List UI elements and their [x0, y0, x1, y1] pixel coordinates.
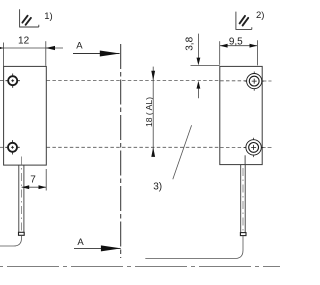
right view screw bottom — [244, 138, 263, 157]
left view screw top — [6, 74, 20, 88]
left probe centerline — [20, 157, 22, 233]
right view probe slot edge — [244, 155, 246, 164]
dimension 7 arrows — [22, 185, 30, 189]
svg-text:7: 7 — [30, 174, 36, 185]
surface icon 2) — [236, 12, 252, 30]
centerline bottom hole — [0, 146, 272, 148]
dimension 18 line — [152, 67, 154, 151]
leader line 3) — [173, 125, 192, 179]
right view probe tube — [241, 165, 246, 233]
dimension 9,5 arrows — [220, 44, 228, 48]
dimension 7 lines — [22, 169, 47, 191]
svg-text:3,8: 3,8 — [185, 36, 196, 50]
svg-text:12: 12 — [18, 36, 30, 47]
section line A-A — [120, 44, 122, 258]
left view probe end cap — [19, 232, 25, 235]
bottom centerline — [0, 265, 280, 267]
dimension 18 arrows — [151, 71, 155, 81]
left view probe tube — [19, 165, 24, 232]
right view screw top — [245, 72, 264, 91]
dimension 9,5 lines — [220, 40, 258, 65]
dimension 12 lines — [0, 41, 63, 66]
left view capillary wire — [0, 235, 22, 246]
surface icon 1) — [20, 9, 39, 27]
right probe centerline — [242, 168, 244, 232]
right view probe end cap — [240, 233, 246, 236]
svg-text:A: A — [77, 237, 84, 248]
svg-text:2): 2) — [256, 10, 264, 21]
dimension 3,8 arrows — [197, 58, 201, 66]
dimension 3,8 lines — [191, 34, 220, 99]
centerline top hole — [0, 80, 272, 82]
svg-text:A: A — [76, 41, 83, 52]
svg-text:18 ( AL): 18 ( AL) — [144, 97, 154, 127]
dimension 12 arrows — [0, 46, 4, 50]
right view housing — [220, 66, 262, 164]
svg-text:1): 1) — [44, 11, 52, 22]
right view capillary wire — [145, 236, 243, 259]
left view housing — [4, 66, 47, 165]
left view screw bottom — [5, 140, 19, 154]
svg-text:3): 3) — [153, 181, 162, 192]
